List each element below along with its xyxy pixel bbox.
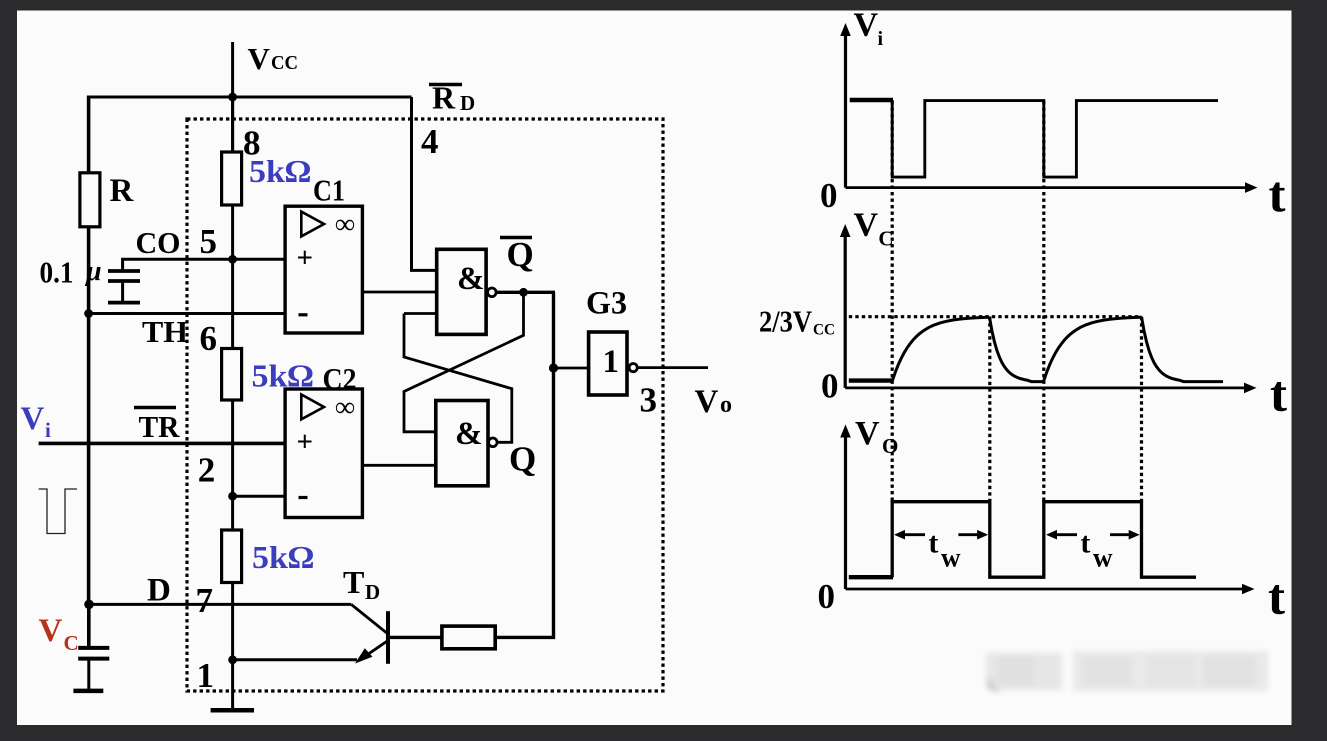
svg-text:i: i bbox=[45, 418, 51, 442]
svg-text:C: C bbox=[878, 227, 893, 251]
divider vertical R1 to R2 bbox=[231, 205, 234, 350]
arrowhead Vo x-axis bbox=[1242, 584, 1255, 595]
svg-text:O: O bbox=[882, 434, 898, 458]
arrowhead Vc y-axis bbox=[840, 224, 851, 237]
svg-text:C1: C1 bbox=[313, 173, 345, 208]
wire cross feedback Q to G1 input bbox=[404, 314, 512, 443]
wire main vertical to base resistor bbox=[495, 292, 553, 637]
wire VCC stub vertical bbox=[231, 42, 234, 154]
watermark blur blocks bbox=[986, 651, 1268, 692]
svg-text:w: w bbox=[1093, 543, 1113, 573]
node VCC junction bbox=[228, 93, 237, 102]
svg-text:0: 0 bbox=[818, 577, 836, 616]
plot Vo axes bbox=[846, 432, 1245, 589]
nand gate G1 box bbox=[437, 249, 486, 334]
ground bar under VC bbox=[73, 689, 103, 694]
svg-text:CC: CC bbox=[271, 52, 298, 74]
op-amp C2 box bbox=[285, 389, 362, 518]
divider vertical VCC to R1 bbox=[231, 97, 234, 154]
dotted guide line 1 bbox=[891, 101, 894, 501]
axis Vc x bbox=[845, 386, 1247, 389]
svg-text:5kΩ: 5kΩ bbox=[249, 153, 311, 189]
wire G3 input bbox=[554, 367, 589, 370]
transistor TD base bar bbox=[386, 611, 390, 664]
wire TH horizontal to C1 minus bbox=[89, 312, 285, 315]
svg-text:CC: CC bbox=[813, 322, 835, 339]
waveform Vo trace bbox=[892, 502, 1196, 578]
svg-text:t: t bbox=[1268, 570, 1285, 626]
tw arrow left 2 bbox=[1052, 533, 1077, 536]
waveform Vc trace bbox=[892, 317, 1223, 382]
svg-text:7: 7 bbox=[196, 581, 214, 620]
svg-text:R: R bbox=[110, 173, 135, 209]
svg-text:∞: ∞ bbox=[335, 209, 355, 240]
axis Vo x bbox=[846, 588, 1245, 591]
capacitor VC bottom plate bbox=[78, 657, 109, 661]
resistor 5k R1 bbox=[222, 152, 242, 205]
arrowhead Vo y-axis bbox=[840, 425, 851, 438]
waveform Vi trace bbox=[892, 100, 1218, 177]
nand gate G2 box bbox=[436, 401, 488, 486]
dotted threshold line 2/3Vcc bbox=[849, 315, 1142, 318]
svg-text:V: V bbox=[39, 613, 63, 649]
divider vertical R2 to R3 bbox=[231, 400, 234, 531]
svg-text:t: t bbox=[928, 527, 938, 560]
svg-text:Q: Q bbox=[507, 235, 534, 274]
op-amp C2 triangle bbox=[301, 395, 324, 420]
svg-text:2/3V: 2/3V bbox=[759, 304, 813, 339]
waveform Vo initial thick segment bbox=[849, 575, 893, 579]
svg-text:D: D bbox=[460, 91, 475, 115]
svg-text:G3: G3 bbox=[586, 285, 627, 321]
dotted guide line 3 bbox=[1042, 101, 1045, 501]
svg-text:D: D bbox=[147, 573, 171, 609]
wire C1 output bbox=[362, 291, 436, 294]
node G3 input junction bbox=[549, 363, 558, 372]
tw arrow right 1 bbox=[958, 533, 982, 536]
transistor TD emitter diagonal bbox=[359, 641, 388, 661]
comparators and gates bbox=[285, 206, 708, 637]
svg-text:T: T bbox=[343, 564, 364, 600]
svg-text:V: V bbox=[854, 6, 879, 43]
node CO pin5 junction bbox=[228, 255, 237, 264]
arrowhead Vi x-axis bbox=[1245, 182, 1258, 193]
tw arrow left 1 bbox=[900, 533, 925, 536]
wire Qbar node to corner bbox=[496, 291, 555, 294]
resistor 5k R2 bbox=[222, 349, 242, 401]
transistor TD base lead bbox=[388, 636, 442, 639]
wire VC cap to ground bbox=[87, 659, 90, 691]
svg-text:0: 0 bbox=[820, 176, 838, 215]
divider vertical R3 to ground bbox=[231, 583, 234, 711]
capacitor CO bottom plate bbox=[108, 279, 140, 283]
svg-text:3: 3 bbox=[640, 381, 658, 420]
axis Vi x bbox=[846, 186, 1248, 189]
ground bar under CO cap bbox=[108, 301, 140, 305]
axis Vc y bbox=[844, 232, 847, 388]
tw arrow right 2 bbox=[1110, 533, 1134, 536]
svg-text:w: w bbox=[941, 543, 961, 573]
axis Vi y bbox=[844, 30, 847, 188]
overline Qbar bbox=[500, 236, 532, 240]
svg-text:V: V bbox=[855, 415, 880, 452]
svg-text:Q: Q bbox=[509, 440, 536, 479]
op-amp C1 triangle bbox=[301, 212, 324, 237]
svg-text:μ: μ bbox=[84, 256, 102, 287]
svg-text:4: 4 bbox=[421, 122, 439, 161]
inverter G3 box bbox=[589, 332, 627, 395]
ground bar pin1 bbox=[211, 708, 254, 713]
node Qbar junction bbox=[519, 288, 528, 297]
wire C2 output bbox=[362, 464, 435, 467]
transistor TD bbox=[351, 604, 495, 663]
resistor R bbox=[80, 173, 100, 227]
svg-text:V: V bbox=[695, 384, 719, 420]
svg-text:t: t bbox=[1080, 527, 1090, 560]
node C2 minus junction bbox=[228, 492, 237, 501]
transistor TD collector diagonal bbox=[351, 604, 388, 634]
svg-text:0: 0 bbox=[821, 367, 839, 406]
arrowhead Vc x-axis bbox=[1244, 383, 1257, 394]
svg-text:+: + bbox=[297, 242, 314, 274]
svg-text:TH: TH bbox=[142, 314, 188, 349]
svg-text:C2: C2 bbox=[323, 361, 357, 396]
wire CO cap lower lead bbox=[121, 281, 124, 303]
plot Vi axes bbox=[846, 30, 1248, 188]
svg-text:o: o bbox=[720, 392, 732, 418]
dotted guide line 4 bbox=[1140, 317, 1143, 501]
nand gate G2 bubble bbox=[489, 438, 498, 447]
axis Vo y bbox=[844, 432, 847, 589]
resistor 5k R3 bbox=[222, 530, 242, 583]
overline TR bbox=[134, 406, 176, 409]
svg-text:5kΩ: 5kΩ bbox=[252, 539, 314, 575]
wire pin1 horizontal emitter bbox=[233, 658, 357, 661]
svg-text:0.1: 0.1 bbox=[40, 255, 74, 290]
op-amp C1 box bbox=[285, 206, 362, 333]
svg-text:TR: TR bbox=[139, 409, 181, 444]
wire G1 feedback input stub bbox=[404, 312, 437, 315]
nand gate G1 bubble bbox=[488, 288, 497, 297]
svg-text:t: t bbox=[1270, 367, 1287, 423]
CIRCUIT-LEFT bbox=[39, 42, 437, 710]
wire Vo output pin3 bbox=[637, 366, 708, 369]
svg-text:2: 2 bbox=[198, 451, 216, 490]
dotted guide line 2 bbox=[988, 317, 991, 501]
node TH junction bbox=[84, 309, 93, 318]
svg-text:&: & bbox=[455, 416, 483, 452]
wire D node down to capacitor VC bbox=[87, 604, 91, 648]
minus C1 bbox=[299, 313, 308, 316]
waveform Vc initial thick segment bbox=[849, 378, 893, 382]
wire TH node down to D node bbox=[87, 314, 91, 605]
wire VCC rail top horizontal bbox=[87, 96, 411, 99]
svg-text:5: 5 bbox=[200, 222, 218, 261]
svg-text:∞: ∞ bbox=[335, 392, 355, 423]
wire CO horizontal to C1 plus bbox=[123, 259, 285, 270]
wire left branch down to R bbox=[87, 96, 91, 175]
inverter G3 bubble bbox=[629, 364, 637, 372]
svg-text:CO: CO bbox=[136, 225, 181, 260]
svg-text:+: + bbox=[297, 426, 314, 458]
junction dots bbox=[84, 93, 237, 665]
node pin1 junction bbox=[228, 655, 237, 664]
svg-text:t: t bbox=[1269, 168, 1286, 224]
resistor base RB bbox=[442, 626, 495, 649]
svg-text:D: D bbox=[365, 580, 380, 604]
capacitor VC top plate bbox=[78, 646, 109, 650]
svg-text:V: V bbox=[248, 41, 271, 76]
svg-text:1: 1 bbox=[197, 656, 215, 695]
svg-text:i: i bbox=[878, 28, 884, 50]
wire RD vertical pin4 bbox=[412, 97, 437, 270]
capacitor CO top plate bbox=[108, 269, 140, 273]
svg-text:6: 6 bbox=[200, 319, 218, 358]
pulse input icon bbox=[39, 489, 77, 534]
svg-text:V: V bbox=[854, 206, 879, 243]
wire D horizontal pin7 bbox=[89, 603, 351, 606]
svg-text:C: C bbox=[64, 631, 79, 655]
waveform Vi initial thick segment bbox=[850, 98, 893, 103]
overline RD bbox=[429, 83, 462, 86]
minus C2 bbox=[299, 496, 308, 499]
svg-text:1: 1 bbox=[603, 344, 620, 380]
wire Vi input to C2 plus bbox=[39, 442, 285, 446]
wire cross feedback Qbar to G2 input bbox=[404, 292, 524, 432]
dotted IC boundary box bbox=[187, 119, 663, 691]
wire node to C2 minus bbox=[233, 495, 285, 498]
wire R bottom to TH node bbox=[87, 227, 91, 314]
arrowhead Vi y-axis bbox=[840, 23, 851, 36]
node D pin7 junction bbox=[84, 600, 94, 610]
plot Vc axes bbox=[845, 232, 1247, 388]
transistor TD emitter arrowhead bbox=[355, 648, 373, 663]
svg-text:5kΩ: 5kΩ bbox=[252, 358, 314, 394]
svg-text:&: & bbox=[457, 261, 485, 297]
svg-text:V: V bbox=[21, 401, 45, 437]
